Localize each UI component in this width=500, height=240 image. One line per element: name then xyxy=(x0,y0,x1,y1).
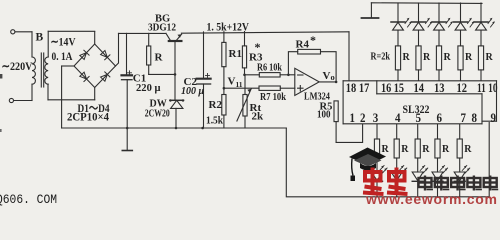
resistor R5 xyxy=(334,101,338,122)
resistor R3 xyxy=(244,32,246,46)
LED column pin12 xyxy=(454,3,475,81)
svg-text:1: 1 xyxy=(350,110,356,125)
wire xyxy=(280,74,295,76)
svg-text:16 15: 16 15 xyxy=(381,80,404,95)
node gnd DW xyxy=(175,127,178,130)
diode D1 xyxy=(79,50,89,60)
svg-text:11 10: 11 10 xyxy=(477,80,498,95)
bridge rectifier frame xyxy=(74,44,116,88)
transformer core xyxy=(40,53,42,87)
node output xyxy=(335,81,338,84)
wire xyxy=(280,87,295,89)
capacitor C2 xyxy=(203,32,205,78)
wire xyxy=(31,32,33,57)
thermistor Rt xyxy=(244,75,246,95)
svg-text:14: 14 xyxy=(414,80,425,95)
svg-text:R: R xyxy=(382,144,390,155)
svg-text:13: 13 xyxy=(434,80,445,95)
svg-text:2CP10×4: 2CP10×4 xyxy=(67,112,109,124)
ground symbol xyxy=(126,128,128,150)
wire xyxy=(14,100,32,102)
wire xyxy=(48,30,94,32)
svg-text:2: 2 xyxy=(360,110,366,125)
svg-text:1. 5k+12V: 1. 5k+12V xyxy=(207,20,250,34)
resistor R4 xyxy=(298,49,321,54)
bottom LED column pin7 xyxy=(454,124,470,197)
resistor R7 xyxy=(259,86,280,90)
svg-text:18 17: 18 17 xyxy=(346,80,370,95)
svg-text:4: 4 xyxy=(395,110,401,125)
diode D3 xyxy=(79,72,89,82)
wire xyxy=(94,32,96,45)
zener DW xyxy=(169,99,184,128)
svg-text:5: 5 xyxy=(416,110,422,125)
bottom LED column pin5 xyxy=(412,124,428,197)
svg-text:R: R xyxy=(464,144,472,155)
svg-text:Vo: Vo xyxy=(323,70,335,82)
IC SL322 package xyxy=(343,81,496,124)
svg-text:220 μ: 220 μ xyxy=(136,82,161,94)
svg-text:R: R xyxy=(403,52,411,63)
node base junction xyxy=(174,73,177,76)
svg-text:1.5k: 1.5k xyxy=(206,115,224,127)
wire DC minus xyxy=(62,65,74,67)
wire xyxy=(321,52,337,82)
node R3/R6/Rt xyxy=(243,74,246,77)
wire xyxy=(47,84,49,100)
svg-text:8: 8 xyxy=(472,110,478,125)
wire xyxy=(48,99,95,101)
node gnd C1 xyxy=(126,127,129,130)
wire rail left xyxy=(119,32,167,34)
LED column pin15 xyxy=(391,3,412,81)
LED column pin14 xyxy=(412,3,433,81)
wire rail +12V xyxy=(181,32,349,33)
wire R to base xyxy=(149,73,175,75)
svg-text:R: R xyxy=(486,52,494,63)
svg-text:∼14V: ∼14V xyxy=(51,35,76,49)
svg-text:R1: R1 xyxy=(229,48,242,60)
terminal top-left xyxy=(11,30,15,34)
svg-text:R2: R2 xyxy=(209,99,223,111)
svg-text:*: * xyxy=(255,40,261,54)
wire V11 to R7 xyxy=(224,87,259,89)
svg-text:2k: 2k xyxy=(252,111,265,123)
svg-text:Q606. COM: Q606. COM xyxy=(0,193,57,207)
node feedback xyxy=(287,74,290,77)
op-amp U1 LM324 xyxy=(295,68,319,95)
svg-text:3DG12: 3DG12 xyxy=(148,23,176,34)
svg-text:∼220V: ∼220V xyxy=(2,59,33,73)
svg-text:R: R xyxy=(401,144,409,155)
watermark chinese text dianzi xiazaizhan xyxy=(419,176,499,191)
label R of led resistors top xyxy=(403,52,494,63)
scan artifact left edge xyxy=(0,74,2,79)
LED column pin13 xyxy=(432,3,453,81)
wire xyxy=(94,88,96,100)
svg-text:100 μ: 100 μ xyxy=(181,85,204,97)
ground rail xyxy=(62,127,287,129)
svg-text:R7 10k: R7 10k xyxy=(260,91,287,103)
bottom LED column pin4 xyxy=(391,124,407,197)
svg-text:R: R xyxy=(444,52,452,63)
ground bar symbol xyxy=(370,3,372,18)
resistor R xyxy=(148,33,150,46)
bottom LED column pin6 xyxy=(432,124,448,197)
resistor R1 xyxy=(223,32,225,43)
svg-text:V11: V11 xyxy=(228,76,243,90)
svg-text:*: * xyxy=(310,33,316,47)
pin numbers bottom row xyxy=(350,110,497,125)
wire xyxy=(47,31,49,57)
transformer B secondary winding xyxy=(45,57,48,84)
transformer B primary winding xyxy=(32,57,35,84)
wire R5 to pin2 xyxy=(336,124,363,142)
svg-text:www.eeworm.com: www.eeworm.com xyxy=(365,191,497,207)
svg-text:12: 12 xyxy=(457,80,468,95)
wire xyxy=(245,74,260,76)
svg-text:100: 100 xyxy=(317,110,331,121)
svg-text:3: 3 xyxy=(373,110,379,125)
pin numbers top row xyxy=(346,80,498,95)
label R of led resistors bottom xyxy=(382,144,473,155)
svg-text:R: R xyxy=(155,52,164,64)
node V11 xyxy=(223,87,226,90)
watermark graduation cap xyxy=(349,148,386,182)
wire xyxy=(15,31,32,33)
diode D2 xyxy=(100,50,110,60)
svg-text:R: R xyxy=(442,144,450,155)
wire xyxy=(31,84,33,100)
svg-text:R=2k: R=2k xyxy=(371,52,391,63)
wire feedback up xyxy=(288,52,297,75)
svg-text:R: R xyxy=(423,52,431,63)
svg-text:0. 1A: 0. 1A xyxy=(52,49,73,63)
wire output xyxy=(319,81,336,83)
terminal bottom-left xyxy=(9,98,13,102)
watermark bug characters xyxy=(363,168,408,195)
svg-text:2CW20: 2CW20 xyxy=(145,109,170,120)
wire LED supply rail xyxy=(371,2,482,5)
wire DC plus xyxy=(116,33,119,66)
resistor R6 xyxy=(259,73,280,77)
svg-text:9: 9 xyxy=(491,110,497,125)
svg-text:6: 6 xyxy=(437,110,443,125)
svg-text:7: 7 xyxy=(461,110,467,125)
svg-text:R6 10k: R6 10k xyxy=(257,62,283,74)
transistor BG 3DG12 xyxy=(166,33,182,100)
bottom LED column pin3 xyxy=(372,124,388,197)
capacitor C1 xyxy=(126,33,128,74)
LED column pin11 xyxy=(474,3,495,81)
LED bar top section xyxy=(362,3,495,197)
diode D4 xyxy=(100,72,110,82)
wire ground loop down xyxy=(286,123,489,197)
svg-text:R4: R4 xyxy=(296,39,310,51)
svg-text:R: R xyxy=(465,52,473,63)
resistor R2 xyxy=(222,95,226,116)
node gnd C2 xyxy=(201,127,204,130)
svg-text:B: B xyxy=(36,32,44,44)
svg-text:R: R xyxy=(422,144,430,155)
wire +12V to pin 18 xyxy=(348,32,350,81)
wire xyxy=(61,66,63,128)
transformer core xyxy=(43,53,45,87)
